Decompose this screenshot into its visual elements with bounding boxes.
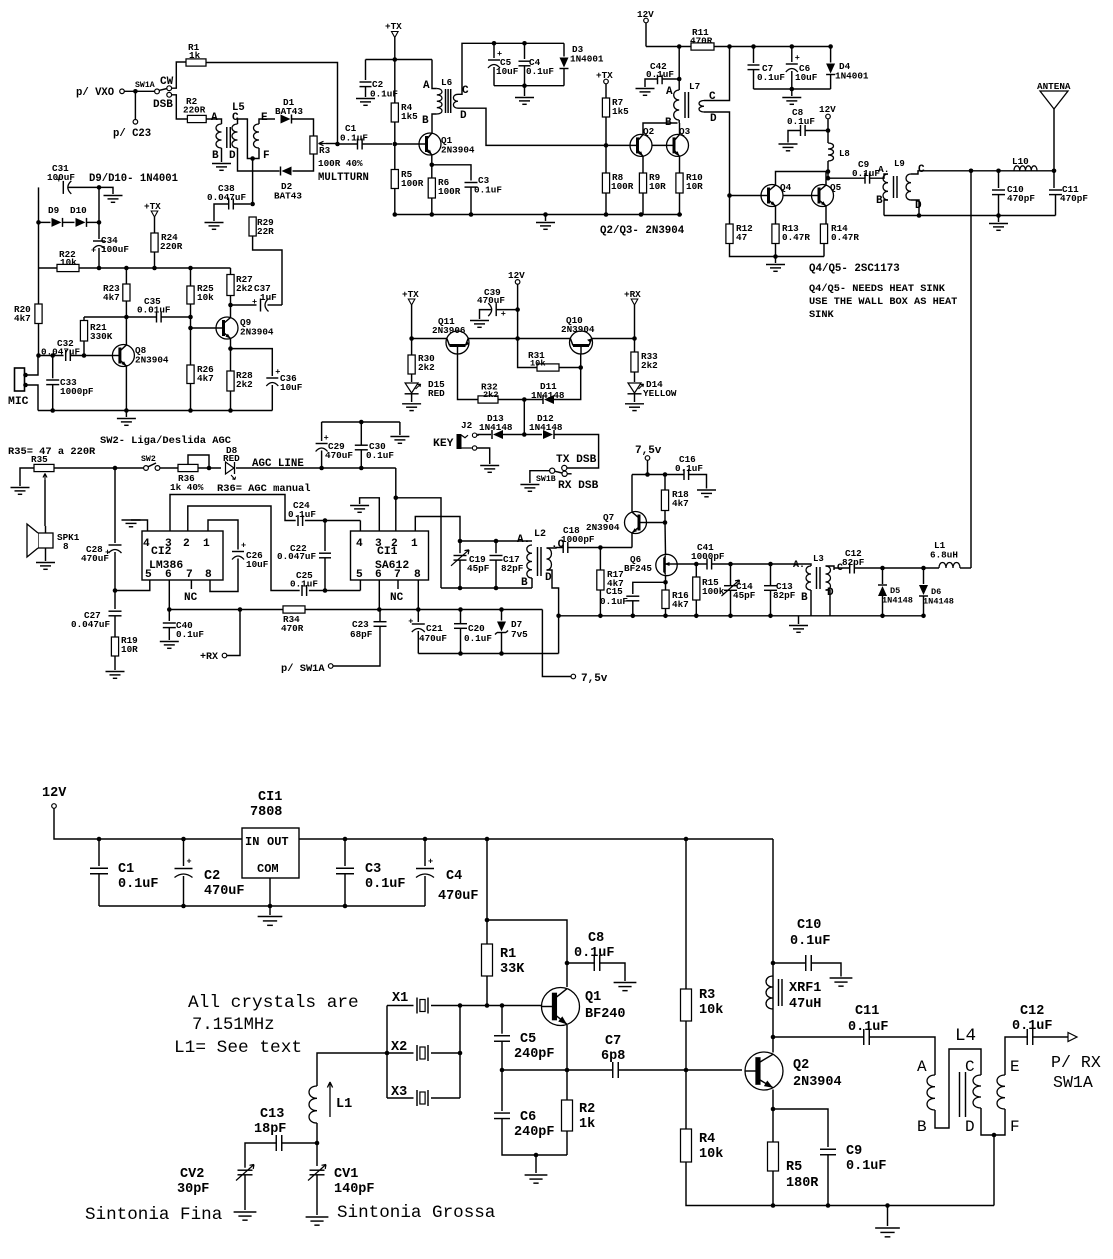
crystal X2 7.151MHz: [414, 1045, 432, 1061]
svg-text:82pF: 82pF: [773, 590, 796, 601]
diode D12 1N4148: [542, 429, 555, 440]
svg-text:0.1uF: 0.1uF: [852, 168, 880, 179]
terminal p/SW1A: [328, 664, 333, 669]
svg-text:7.151MHz: 7.151MHz: [192, 1016, 275, 1035]
wire rail to R20: [38, 268, 40, 304]
wire filter bottom rail: [494, 85, 564, 87]
svg-text:470R: 470R: [281, 623, 304, 634]
junction: [343, 837, 689, 842]
svg-text:R5: R5: [786, 1160, 802, 1175]
svg-text:p/ VXO: p/ VXO: [76, 87, 114, 99]
svg-text:240pF: 240pF: [514, 1125, 555, 1140]
svg-text:0.047uF: 0.047uF: [207, 192, 246, 203]
wire to C35: [126, 316, 156, 318]
junction: [992, 1133, 997, 1138]
wire to C10: [773, 962, 806, 964]
svg-text:SW1A: SW1A: [135, 81, 155, 90]
wire R1 to C1 node: [206, 63, 338, 145]
diode D4 1N4001: [825, 63, 836, 76]
ground at C6/R2: [525, 1175, 548, 1183]
wire C10 down: [998, 195, 1000, 216]
svg-text:R35: R35: [31, 454, 48, 465]
svg-text:7808: 7808: [250, 805, 282, 820]
LED D15 RED: [405, 382, 421, 394]
wire to C6: [791, 47, 793, 63]
wire to D6: [923, 568, 925, 585]
wire C7 down: [753, 70, 755, 89]
junction: [771, 1203, 890, 1208]
wire rail to R27: [230, 268, 232, 275]
svg-text:8: 8: [414, 569, 421, 581]
svg-text:0.1uF: 0.1uF: [1012, 1019, 1053, 1034]
wire C2 to ground: [365, 87, 367, 97]
wire Q2 emitter: [772, 1090, 774, 1110]
capacitor C22 0.047uF: [319, 553, 331, 558]
switch SW1B throw RX: [562, 471, 567, 476]
svg-text:1N4148: 1N4148: [923, 597, 954, 607]
wire base node to C5: [501, 1006, 503, 1034]
wire C15 to ground rail: [632, 601, 634, 616]
wire mic line left: [39, 355, 64, 357]
wire R15 to ground rail: [695, 600, 697, 616]
svg-text:D: D: [229, 150, 236, 162]
wire to C10: [998, 171, 1000, 188]
svg-text:1k5: 1k5: [612, 106, 629, 117]
wire R11 to D4 rail: [714, 46, 831, 48]
terminal +TX (buffer): [392, 32, 399, 38]
capacitor C18 1000pF: [563, 542, 568, 553]
wire Q5 emitter: [825, 206, 827, 224]
ground filter: [515, 98, 534, 105]
wire C38 to ground: [214, 204, 229, 221]
svg-text:CI1: CI1: [377, 546, 398, 558]
wire R33 to D14: [634, 372, 636, 382]
wire emitter to C3: [432, 165, 471, 181]
svg-text:2k2: 2k2: [483, 390, 498, 400]
wire AGC to C28: [114, 468, 116, 543]
potentiometer R36: [178, 464, 198, 471]
svg-text:+: +: [428, 857, 433, 867]
wire to Q1 collector: [487, 920, 567, 963]
capacitor C2 0.1uF: [360, 82, 372, 87]
resistor R34: [283, 606, 305, 613]
svg-text:Q2: Q2: [643, 126, 655, 137]
wire to X1: [387, 1005, 414, 1007]
svg-text:MIC: MIC: [8, 396, 29, 408]
L3 core: [817, 567, 821, 589]
svg-text:CV1: CV1: [334, 1167, 358, 1182]
LED D14 YELLOW: [628, 382, 644, 394]
wire AGC cap top rail: [322, 421, 400, 423]
junction: [727, 193, 732, 198]
junction: [430, 163, 435, 168]
wire 12V rail left: [54, 808, 242, 839]
svg-text:B: B: [521, 577, 528, 589]
capacitor C29 470uF: [316, 433, 329, 452]
wire R5 down: [772, 1171, 774, 1206]
svg-text:p/ SW1A: p/ SW1A: [281, 663, 325, 675]
svg-text:RX DSB: RX DSB: [558, 480, 599, 492]
wire to X3: [387, 1097, 414, 1099]
wire to C29: [321, 422, 323, 441]
wire C4 down: [424, 876, 426, 906]
junction: [238, 607, 504, 612]
svg-text:C7: C7: [605, 1034, 621, 1049]
wire L3 C to C12: [826, 566, 850, 568]
svg-text:L10: L10: [1012, 156, 1029, 167]
capacitor C26 10uF: [232, 541, 246, 560]
wire C42 to 12V line: [662, 78, 679, 80]
svg-text:BF245: BF245: [624, 563, 652, 574]
terminal +TX (switch): [408, 299, 415, 305]
junction: [565, 961, 570, 966]
capacitor C24 0.1uF: [298, 515, 303, 526]
svg-text:180R: 180R: [786, 1176, 819, 1191]
junction: [323, 518, 328, 523]
wire Q6 gate: [677, 563, 696, 565]
switch SW1A common: [155, 89, 160, 94]
IC CI2 LM386: [142, 531, 223, 580]
wire rail to R3: [685, 839, 687, 989]
junction: [645, 472, 667, 477]
wire TX driver ground rail: [395, 214, 682, 216]
resistor R23: [123, 284, 130, 301]
svg-text:BAT43: BAT43: [275, 106, 303, 117]
ground at C31: [104, 196, 123, 203]
svg-text:BAT43: BAT43: [274, 191, 302, 202]
wire D5 down: [882, 596, 884, 616]
svg-text:A: A: [211, 112, 218, 124]
svg-text:0.47R: 0.47R: [831, 232, 859, 243]
diode D10 1N4001: [75, 217, 88, 228]
capacitor C23 68pF: [374, 622, 387, 627]
wire crystal bus right: [459, 1006, 461, 1099]
variable capacitor CV2 30pF: [238, 1170, 253, 1175]
svg-text:Q2: Q2: [793, 1058, 809, 1073]
wire C39 to ground: [480, 310, 492, 319]
ground at C42: [636, 89, 655, 96]
wire R35 wiper to speaker: [44, 480, 46, 526]
svg-text:A: A: [917, 1058, 927, 1076]
wire +RX down: [634, 305, 636, 339]
wire switch rail: [412, 338, 635, 340]
wire to R6: [431, 165, 433, 178]
wire rail to ground: [545, 215, 547, 222]
svg-text:0.1uF: 0.1uF: [600, 596, 628, 607]
wire C42 to ground: [645, 79, 658, 87]
junction C/F: [250, 156, 255, 161]
L4 core: [960, 1072, 966, 1117]
wire 12V rail right: [299, 838, 773, 840]
svg-text:2: 2: [183, 538, 190, 550]
svg-text:100R: 100R: [401, 178, 424, 189]
diode D13 1N4148: [491, 429, 504, 440]
wire R3 to base line: [685, 1021, 687, 1070]
ground at C2: [356, 99, 375, 106]
wire PA filter bottom: [754, 88, 831, 90]
wire R9 to rail: [642, 193, 644, 215]
svg-text:XRF1: XRF1: [789, 981, 821, 996]
wire R21 top: [84, 316, 126, 318]
svg-text:C: C: [918, 164, 925, 176]
svg-text:Q4/Q5- NEEDS HEAT SINK: Q4/Q5- NEEDS HEAT SINK: [809, 283, 946, 295]
junction: [458, 651, 504, 656]
wire base Q1: [395, 143, 419, 145]
wire to ground: [524, 86, 526, 96]
wire output stage ground rail: [730, 244, 825, 257]
wire DSB to R2: [172, 95, 188, 119]
wire L3 D to ground rail: [826, 590, 831, 616]
wire Q9 emitter to C36: [231, 349, 273, 376]
capacitor C6 10uF: [786, 53, 800, 72]
wire p/VXO to SW1A: [124, 90, 154, 92]
wire to X2: [387, 1052, 414, 1054]
wire L2 B down: [531, 578, 533, 588]
wire R16 to ground rail: [665, 609, 667, 616]
svg-text:L1= See text: L1= See text: [174, 1038, 302, 1058]
svg-text:10R: 10R: [686, 181, 703, 192]
wire CI1 pin6 to 7.5V rail: [378, 580, 380, 610]
svg-text:10uF: 10uF: [280, 382, 303, 393]
capacitor C31 100uF: [56, 175, 71, 194]
junction: [485, 918, 490, 923]
ground at C8: [779, 144, 798, 151]
wire tank to L3 A: [806, 564, 811, 566]
svg-text:0.47R: 0.47R: [782, 232, 810, 243]
ground TX driver rail: [536, 223, 555, 230]
junctions rail: [393, 212, 644, 217]
wire jack sleeve to ground: [477, 448, 490, 464]
wire rail to ground: [798, 616, 800, 624]
L1 adjust arrow: [327, 1082, 332, 1117]
capacitor C36 10uF: [266, 367, 280, 386]
wire to p/C23: [134, 91, 136, 119]
svg-text:1k 40%: 1k 40%: [170, 482, 204, 493]
svg-text:C13: C13: [260, 1107, 284, 1122]
wire C11 down: [1055, 195, 1057, 216]
svg-text:0.01uF: 0.01uF: [137, 305, 171, 316]
svg-text:2N3904: 2N3904: [135, 355, 169, 366]
svg-text:470uF: 470uF: [204, 884, 245, 899]
transistor Q8 2N3904: [112, 345, 134, 367]
ground at L5 B: [212, 164, 231, 171]
wire CI2 pin2 to C25: [188, 506, 300, 591]
wire to C1: [98, 839, 100, 866]
XRF1 coil: [766, 976, 773, 1009]
resistor R6: [428, 178, 435, 198]
wire RX throw stub: [567, 473, 571, 475]
wire AGC to CI1 pin2: [395, 468, 397, 531]
wire C9 down: [827, 1155, 829, 1206]
wire to C14: [730, 564, 732, 586]
junction: [188, 315, 193, 331]
capacitor C12 82pF (RX): [850, 563, 855, 574]
transformer L4 winding A-B: [927, 1075, 935, 1110]
junction: [663, 580, 668, 585]
svg-text:10uF: 10uF: [496, 66, 519, 77]
svg-text:Q5: Q5: [830, 182, 842, 193]
resistor R5: [391, 170, 398, 189]
resistor R21: [80, 321, 87, 342]
switch SW1B throw TX: [562, 465, 567, 470]
wire L2 D to ground rail: [547, 570, 559, 654]
capacitor C13 82pF: [764, 586, 777, 591]
svg-text:Sintonia Fina: Sintonia Fina: [85, 1205, 222, 1225]
microphone MIC: [15, 368, 25, 391]
wire to R12: [729, 196, 731, 225]
switch SW1A throw DSB: [167, 92, 172, 97]
wire to C2: [365, 60, 367, 81]
wire Q7 emitter down: [631, 534, 633, 548]
svg-text:0.1uF: 0.1uF: [526, 66, 554, 77]
inductor XRF1 47uH: [766, 976, 782, 1009]
svg-text:0.1uF: 0.1uF: [176, 629, 204, 640]
wire to C38/R29 node: [252, 159, 254, 205]
wire L2 C to C18: [547, 547, 564, 550]
svg-text:1: 1: [411, 538, 418, 550]
transformer L4 winding E-F: [997, 1075, 1005, 1109]
svg-text:A.: A.: [517, 534, 530, 546]
wire Q6 source: [665, 576, 667, 583]
wire VXO output ground rail: [686, 1162, 994, 1206]
svg-text:10k: 10k: [60, 257, 77, 268]
wire antenna filter ground rail: [884, 215, 1056, 217]
svg-text:33K: 33K: [500, 962, 525, 977]
svg-text:B: B: [212, 150, 219, 162]
wire L9 D down: [911, 200, 919, 216]
svg-text:R3: R3: [699, 988, 715, 1003]
wire to C5: [493, 43, 495, 58]
wire to R5: [772, 1109, 774, 1142]
wire C3 to rail: [470, 187, 472, 214]
inductor L10: [1014, 166, 1037, 171]
junction C38: [250, 202, 255, 207]
diode D2 BAT43: [280, 166, 293, 177]
wire C35 to divider: [161, 316, 190, 318]
ground at R19: [106, 672, 125, 679]
resistor R17: [597, 570, 604, 590]
capacitor C33 1000pF: [46, 380, 59, 385]
ground at CV2: [234, 1212, 257, 1220]
svg-text:B: B: [665, 117, 672, 129]
wire Q8 emitter to rail: [125, 366, 127, 411]
svg-text:2k2: 2k2: [418, 362, 435, 373]
resistor R18: [661, 490, 668, 511]
mic lead dots: [23, 373, 28, 388]
wire C30 to AGC: [360, 450, 362, 468]
wire Q4/Q5 base line: [730, 195, 819, 197]
svg-text:100uF: 100uF: [101, 244, 129, 255]
junction: [113, 466, 118, 471]
wire to C13: [770, 564, 772, 586]
svg-text:F: F: [263, 150, 270, 162]
capacitor C38 0.047uF: [229, 199, 234, 210]
svg-text:L7: L7: [689, 81, 700, 92]
svg-text:45pF: 45pF: [733, 590, 756, 601]
wire R3 wiper to C1 node: [326, 143, 338, 145]
wire Q2 collector column: [772, 839, 774, 1053]
svg-text:RED: RED: [223, 453, 240, 464]
capacitor C3 0.1uF: [465, 183, 478, 188]
svg-text:C8: C8: [588, 931, 604, 946]
wire R26 to rail: [190, 384, 192, 411]
svg-text:8: 8: [63, 541, 69, 552]
antenna ANT1: [1040, 91, 1068, 109]
resistor R27: [227, 275, 234, 296]
wire CI2 pin1 to C26: [208, 520, 238, 550]
wire R4 to R5 through base node: [394, 122, 396, 170]
terminal 7.5V in: [645, 456, 650, 461]
ground antenna filter: [989, 224, 1008, 231]
junction: [319, 466, 363, 471]
svg-text:4k7: 4k7: [672, 599, 689, 610]
wire L9 B down: [884, 200, 888, 216]
svg-text:D5: D5: [890, 586, 900, 596]
svg-text:B: B: [917, 1118, 927, 1136]
transistor Q9 2N3904: [216, 317, 238, 339]
svg-text:+TX: +TX: [385, 21, 402, 32]
svg-text:470uF: 470uF: [325, 450, 353, 461]
wire 12V to L7 A: [678, 47, 680, 91]
svg-text:0.1uF: 0.1uF: [365, 877, 406, 892]
junction: [485, 1003, 505, 1008]
wire bus to L1: [317, 1053, 387, 1086]
resistor R9: [639, 173, 646, 193]
junction: [323, 588, 328, 593]
transformer L7 primary A-B: [674, 90, 679, 120]
svg-text:p/ C23: p/ C23: [113, 128, 151, 140]
svg-text:COM: COM: [257, 862, 279, 876]
wire D12 to SW1B TX throw: [554, 435, 599, 469]
svg-text:+: +: [501, 309, 506, 319]
wire VXO filter ground rail: [99, 905, 425, 907]
svg-text:18pF: 18pF: [254, 1122, 286, 1137]
svg-text:YELLOW: YELLOW: [643, 388, 677, 399]
svg-text:OUT: OUT: [267, 835, 289, 849]
wire L5 E to D1: [259, 119, 275, 124]
wire R18 to Q7 base node: [664, 511, 666, 523]
svg-text:1N4001: 1N4001: [570, 54, 604, 65]
svg-text:12V: 12V: [637, 9, 654, 20]
junction: [826, 169, 831, 180]
transistor Q10 2N3904: [570, 331, 593, 354]
junction: [359, 420, 364, 425]
capacitor C2 470uF (VXO): [175, 857, 193, 878]
wire L4 B to C strap: [935, 1049, 981, 1128]
wire emitter to C9: [773, 1109, 828, 1147]
resistor R33: [631, 352, 638, 372]
wire to C40: [168, 610, 170, 622]
LED D8 RED: [224, 462, 236, 480]
ground at C40: [160, 642, 179, 649]
svg-text:220R: 220R: [160, 241, 183, 252]
terminal p/VXO: [120, 89, 125, 94]
wire 7.5V rail right: [305, 609, 542, 611]
resistor R13: [772, 224, 779, 244]
svg-text:D9: D9: [48, 205, 60, 216]
wire D15 to ground: [411, 394, 413, 402]
svg-text:47uH: 47uH: [789, 997, 821, 1012]
capacitor C12 0.1uF (VXO): [1027, 1029, 1033, 1045]
svg-text:C9: C9: [846, 1144, 862, 1159]
capacitor C4 470uF (VXO): [416, 857, 434, 878]
wire C20 down: [460, 628, 462, 653]
wire C22 to C25 node: [324, 558, 326, 591]
wire L8 to collectors: [827, 161, 829, 178]
svg-text:L2: L2: [534, 529, 546, 540]
wire to ground: [125, 411, 127, 418]
svg-text:0.1uF: 0.1uF: [288, 509, 316, 520]
